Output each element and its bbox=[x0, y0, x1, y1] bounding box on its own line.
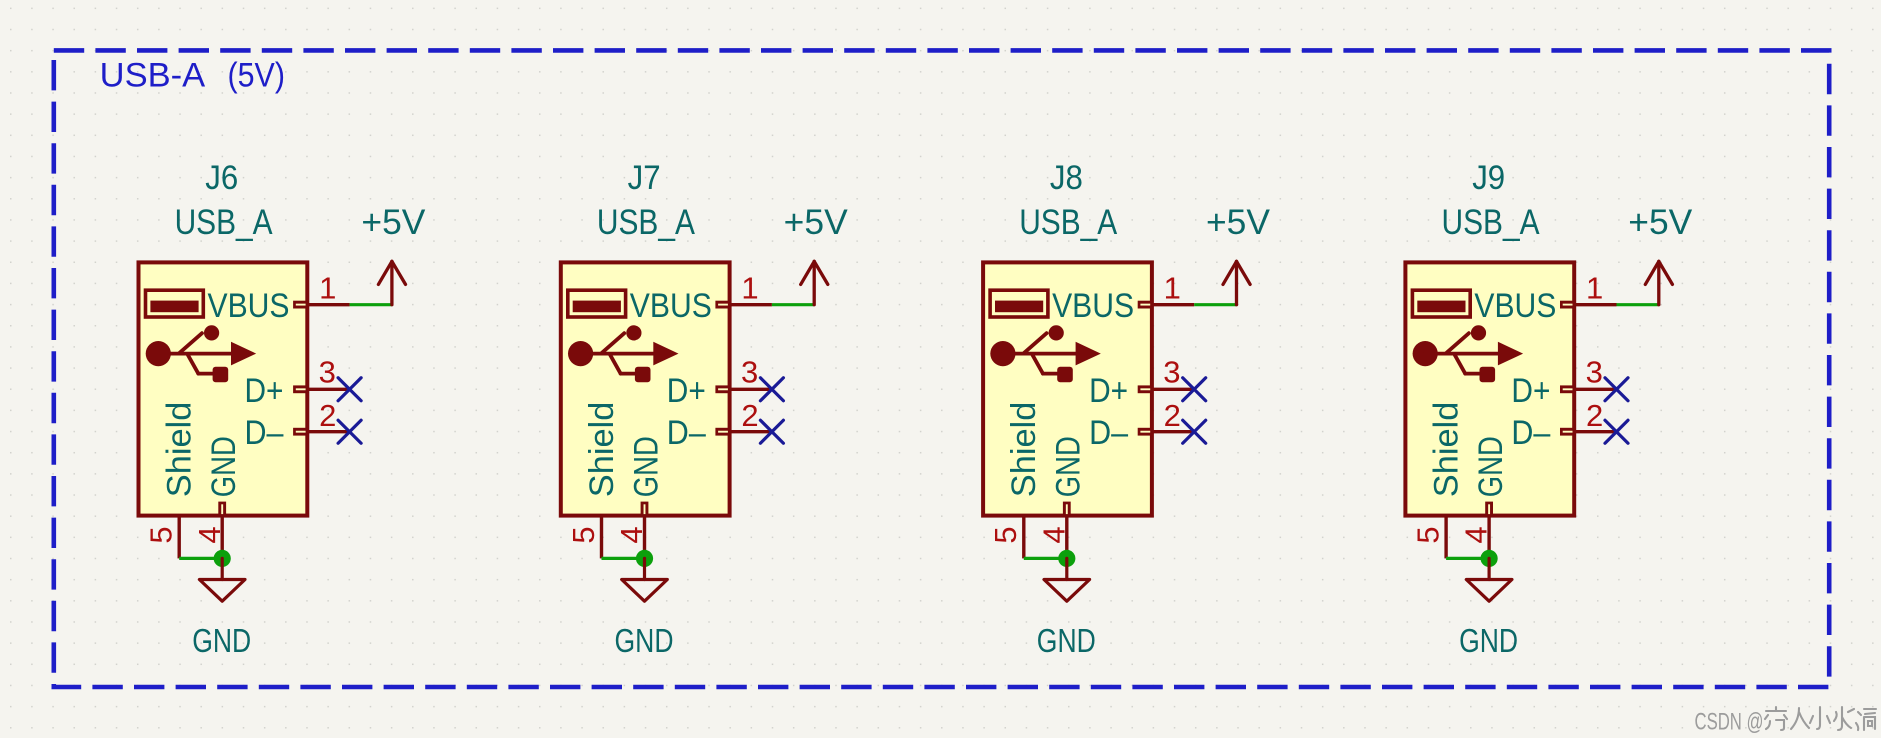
pin 5 Shield stub bbox=[177, 516, 180, 559]
USB trident icon bbox=[1413, 325, 1524, 382]
junction dot bbox=[214, 550, 231, 567]
svg-text:USB_A: USB_A bbox=[1442, 203, 1541, 242]
svg-text:+5V: +5V bbox=[361, 203, 426, 242]
no-connect X on D- bbox=[338, 420, 361, 443]
pin 2 D- stub bbox=[1574, 430, 1616, 433]
svg-text:3: 3 bbox=[1163, 355, 1180, 390]
svg-text:J6: J6 bbox=[205, 159, 238, 197]
svg-text:GND: GND bbox=[627, 436, 665, 497]
pin 4 GND stub bbox=[643, 516, 646, 559]
pin 4 contact pad bbox=[641, 502, 649, 516]
svg-text:3: 3 bbox=[1586, 355, 1603, 390]
USB receptacle icon outer bbox=[146, 290, 204, 317]
wire VBUS to +5V bbox=[350, 303, 392, 306]
pin 4 contact pad bbox=[1485, 502, 1493, 516]
pin 3 contact pad bbox=[293, 385, 307, 393]
wire Shield to GND bbox=[1024, 557, 1067, 560]
pin 1 contact pad bbox=[1138, 301, 1152, 309]
svg-text:GND: GND bbox=[1050, 436, 1088, 497]
svg-text:(5V): (5V) bbox=[228, 57, 286, 95]
svg-text:4: 4 bbox=[614, 526, 649, 543]
svg-text:5: 5 bbox=[566, 526, 601, 543]
svg-text:GND: GND bbox=[205, 436, 243, 497]
svg-text:2: 2 bbox=[1164, 398, 1181, 433]
svg-text:+5V: +5V bbox=[1628, 203, 1693, 242]
svg-text:VBUS: VBUS bbox=[630, 287, 712, 325]
pin 3 D+ stub bbox=[730, 388, 772, 391]
svg-text:D+: D+ bbox=[667, 372, 706, 410]
pin 4 GND stub bbox=[220, 516, 223, 559]
USB receptacle icon contact bar bbox=[1417, 301, 1465, 313]
svg-text:J8: J8 bbox=[1050, 159, 1083, 197]
pin 2 D- stub bbox=[1152, 430, 1194, 433]
svg-text:5: 5 bbox=[1410, 526, 1445, 543]
pin 4 GND stub bbox=[1065, 516, 1068, 559]
svg-text:GND: GND bbox=[192, 622, 251, 659]
svg-text:4: 4 bbox=[1459, 526, 1494, 543]
svg-text:5: 5 bbox=[988, 526, 1023, 543]
svg-text:Shield: Shield bbox=[1005, 402, 1043, 498]
USB receptacle icon outer bbox=[990, 290, 1048, 317]
pin 3 contact pad bbox=[1138, 385, 1152, 393]
connector J7 body outline bbox=[561, 262, 730, 515]
pin 1 VBUS stub bbox=[1152, 303, 1194, 306]
pin 2 D- stub bbox=[730, 430, 772, 433]
svg-text:USB-A: USB-A bbox=[100, 57, 206, 95]
svg-text:1: 1 bbox=[1164, 271, 1181, 306]
svg-text:D+: D+ bbox=[245, 372, 284, 410]
pin 5 Shield stub bbox=[1022, 516, 1025, 559]
pin 1 contact pad bbox=[293, 301, 307, 309]
svg-text:3: 3 bbox=[319, 355, 336, 390]
no-connect X on D+ bbox=[338, 378, 361, 401]
pin 3 contact pad bbox=[1560, 385, 1574, 393]
svg-text:D+: D+ bbox=[1089, 372, 1128, 410]
USB trident icon bbox=[146, 325, 257, 382]
USB receptacle icon contact bar bbox=[573, 301, 621, 313]
power symbol +5V bbox=[1223, 261, 1250, 304]
svg-text:USB_A: USB_A bbox=[597, 203, 696, 242]
connector J6 body outline bbox=[139, 262, 308, 515]
svg-text:3: 3 bbox=[741, 355, 758, 390]
pin 1 VBUS stub bbox=[307, 303, 349, 306]
svg-text:Shield: Shield bbox=[1427, 402, 1465, 498]
wire VBUS to +5V bbox=[772, 303, 814, 306]
USB receptacle icon contact bar bbox=[995, 301, 1043, 313]
svg-text:GND: GND bbox=[615, 622, 674, 659]
connector J9 body outline bbox=[1405, 262, 1574, 515]
svg-text:2: 2 bbox=[1586, 398, 1603, 433]
wire Shield to GND bbox=[602, 557, 645, 560]
svg-text:VBUS: VBUS bbox=[1474, 287, 1556, 325]
USB receptacle icon outer bbox=[1412, 290, 1470, 317]
wire Shield to GND bbox=[1446, 557, 1489, 560]
svg-text:D–: D– bbox=[1511, 414, 1550, 452]
wire Shield to GND bbox=[179, 557, 222, 560]
USB receptacle icon contact bar bbox=[150, 301, 198, 313]
svg-text:GND: GND bbox=[1037, 622, 1096, 659]
svg-text:4: 4 bbox=[192, 526, 227, 543]
pin 1 VBUS stub bbox=[730, 303, 772, 306]
svg-text:Shield: Shield bbox=[583, 402, 621, 498]
power symbol +5V bbox=[378, 261, 405, 304]
pin 2 contact pad bbox=[1138, 428, 1152, 436]
no-connect X on D+ bbox=[1605, 378, 1628, 401]
pin 3 D+ stub bbox=[307, 388, 349, 391]
svg-text:1: 1 bbox=[741, 271, 758, 306]
pin 4 GND stub bbox=[1487, 516, 1490, 559]
no-connect X on D- bbox=[1183, 420, 1206, 443]
svg-text:GND: GND bbox=[1472, 436, 1510, 497]
pin 3 D+ stub bbox=[1574, 388, 1616, 391]
pin 4 contact pad bbox=[1063, 502, 1071, 516]
pin 1 contact pad bbox=[715, 301, 729, 309]
svg-text:D–: D– bbox=[245, 414, 284, 452]
watermark CSDN bbox=[1695, 707, 1877, 735]
junction dot bbox=[1058, 550, 1075, 567]
svg-text:4: 4 bbox=[1036, 526, 1071, 543]
svg-text:+5V: +5V bbox=[784, 203, 849, 242]
svg-text:Shield: Shield bbox=[161, 402, 199, 498]
junction dot bbox=[1481, 550, 1498, 567]
svg-text:VBUS: VBUS bbox=[1052, 287, 1134, 325]
connector J8 body outline bbox=[983, 262, 1152, 515]
svg-text:1: 1 bbox=[1586, 271, 1603, 306]
svg-text:D–: D– bbox=[1089, 414, 1128, 452]
USB trident icon bbox=[990, 325, 1101, 382]
svg-text:USB_A: USB_A bbox=[175, 203, 274, 242]
pin 2 contact pad bbox=[715, 428, 729, 436]
wire VBUS to +5V bbox=[1194, 303, 1236, 306]
wire VBUS to +5V bbox=[1617, 303, 1659, 306]
svg-text:J9: J9 bbox=[1472, 159, 1505, 197]
svg-text:J7: J7 bbox=[628, 159, 661, 197]
svg-text:VBUS: VBUS bbox=[208, 287, 290, 325]
svg-text:GND: GND bbox=[1459, 622, 1518, 659]
pin 1 contact pad bbox=[1560, 301, 1574, 309]
ground symbol bbox=[622, 558, 668, 601]
svg-text:2: 2 bbox=[741, 398, 758, 433]
ground symbol bbox=[199, 558, 245, 601]
pin 2 contact pad bbox=[293, 428, 307, 436]
no-connect X on D+ bbox=[1183, 378, 1206, 401]
svg-text:D+: D+ bbox=[1511, 372, 1550, 410]
svg-text:5: 5 bbox=[144, 526, 179, 543]
pin 2 contact pad bbox=[1560, 428, 1574, 436]
power symbol +5V bbox=[801, 261, 828, 304]
svg-text:+5V: +5V bbox=[1206, 203, 1271, 242]
pin 1 VBUS stub bbox=[1574, 303, 1616, 306]
svg-text:D–: D– bbox=[667, 414, 706, 452]
USB receptacle icon outer bbox=[568, 290, 626, 317]
svg-text:1: 1 bbox=[319, 271, 336, 306]
pin 4 contact pad bbox=[218, 502, 226, 516]
svg-text:USB_A: USB_A bbox=[1019, 203, 1118, 242]
no-connect X on D- bbox=[760, 420, 783, 443]
ground symbol bbox=[1044, 558, 1090, 601]
ground symbol bbox=[1466, 558, 1512, 601]
svg-text:CSDN @: CSDN @ bbox=[1695, 708, 1764, 735]
no-connect X on D+ bbox=[760, 378, 783, 401]
junction dot bbox=[636, 550, 653, 567]
pin 5 Shield stub bbox=[1444, 516, 1447, 559]
pin 5 Shield stub bbox=[600, 516, 603, 559]
no-connect X on D- bbox=[1605, 420, 1628, 443]
pin 3 D+ stub bbox=[1152, 388, 1194, 391]
pin 3 contact pad bbox=[715, 385, 729, 393]
power symbol +5V bbox=[1645, 261, 1672, 304]
USB trident icon bbox=[568, 325, 679, 382]
pin 2 D- stub bbox=[307, 430, 349, 433]
svg-text:2: 2 bbox=[319, 398, 336, 433]
